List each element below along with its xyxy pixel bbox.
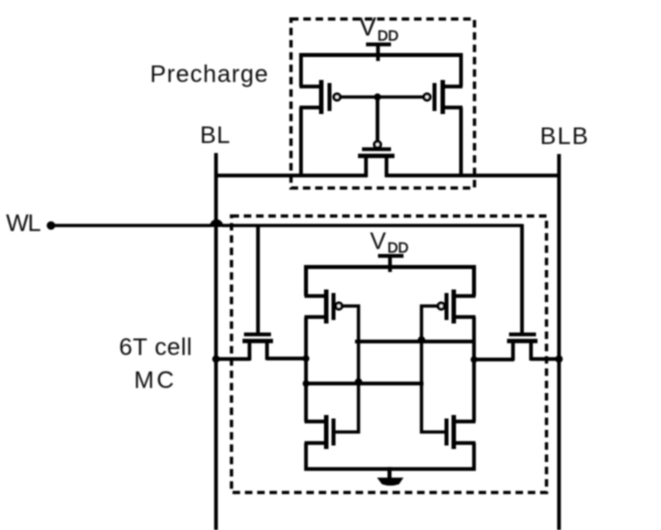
wire node QB vertical bbox=[472, 317, 476, 422]
svg-text:6T cell: 6T cell bbox=[119, 334, 192, 361]
svg-text:V: V bbox=[370, 228, 386, 255]
svg-text:V: V bbox=[359, 12, 377, 42]
wire BL (bitline) bbox=[214, 153, 218, 530]
node junction Q access bbox=[303, 355, 310, 362]
svg-text:DD: DD bbox=[378, 29, 399, 45]
wire right access to BLB bbox=[531, 357, 560, 361]
wire precharge gate bus bbox=[341, 95, 424, 98]
wire BLB (bitline bar) bbox=[557, 154, 561, 530]
wire left inverter gate bbox=[336, 306, 359, 432]
pmos M3 equalizer bbox=[358, 142, 395, 178]
ground bbox=[377, 467, 404, 486]
node precharge gate junction bbox=[374, 93, 381, 100]
wire cell ground rail bbox=[306, 443, 474, 469]
node junction QB access bbox=[471, 356, 478, 363]
pmos P1 cell left bbox=[305, 290, 342, 324]
wire cross-couple lower (from Q) bbox=[306, 382, 424, 386]
nmos N2 cell right bbox=[445, 415, 476, 449]
pmos M1 precharge left bbox=[300, 53, 341, 177]
nmos A1 access left bbox=[243, 333, 274, 361]
label VDD (cell) bbox=[370, 228, 408, 257]
wire equalizer gate bbox=[376, 97, 380, 142]
wire left access to Q bbox=[267, 357, 307, 361]
node junction lower cross bbox=[355, 378, 363, 386]
wire WL bbox=[53, 224, 211, 227]
node junction upper cross bbox=[418, 336, 426, 344]
node junction BL access bbox=[212, 355, 220, 363]
power symbol VDD (precharge) bbox=[366, 43, 391, 62]
power symbol VDD (cell) bbox=[378, 254, 404, 272]
wire precharge VDD rail bbox=[301, 53, 461, 57]
wire cell VDD rail bbox=[306, 267, 474, 296]
nmos A2 access right bbox=[507, 333, 538, 361]
svg-text:Precharge: Precharge bbox=[150, 61, 268, 88]
nmos N1 cell left bbox=[305, 415, 336, 449]
wire right inverter gate bbox=[422, 306, 445, 432]
svg-text:BL: BL bbox=[200, 122, 230, 149]
wire WL hop over BL bbox=[210, 219, 224, 227]
pmos M2 precharge right bbox=[424, 53, 463, 177]
wire precharge bottom rail left segment bbox=[216, 174, 368, 178]
wire left access to BL bbox=[216, 357, 250, 361]
wire access gate right bbox=[520, 224, 524, 333]
node junction Q lower bbox=[303, 380, 310, 387]
precharge dashed box bbox=[291, 19, 475, 188]
node WL terminal dot bbox=[47, 221, 56, 230]
label VDD (precharge) bbox=[359, 12, 398, 45]
svg-text:BLB: BLB bbox=[540, 123, 588, 150]
pmos P2 cell right bbox=[438, 290, 475, 324]
wire precharge bottom rail right segment bbox=[385, 174, 559, 178]
node junction BLB access bbox=[555, 355, 563, 363]
svg-text:WL: WL bbox=[6, 210, 41, 237]
6T cell dashed box bbox=[232, 216, 547, 493]
wire right access to QB bbox=[474, 358, 514, 362]
wire node Q vertical bbox=[304, 317, 308, 422]
wire cross-couple upper (to QB) bbox=[355, 340, 474, 344]
wire access gate left bbox=[256, 224, 260, 333]
